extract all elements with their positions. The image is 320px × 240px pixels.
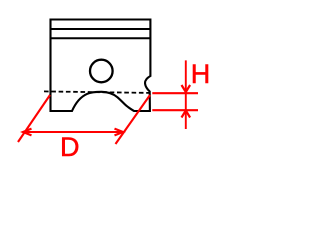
piston ring groove line 1 xyxy=(51,28,151,30)
dimension line H vertical xyxy=(185,60,187,129)
H bottom extension line xyxy=(152,109,198,111)
right oblique extension line xyxy=(116,95,151,144)
arrowhead D left xyxy=(23,129,32,136)
arrowhead D right xyxy=(115,129,124,136)
dimension line D xyxy=(23,131,123,133)
arrowhead H up xyxy=(182,111,191,118)
svg-text:H: H xyxy=(191,59,211,89)
H top extension line xyxy=(152,92,198,94)
left oblique extension line xyxy=(18,95,50,142)
svg-text:D: D xyxy=(60,132,80,162)
piston body outline xyxy=(51,20,151,112)
arrowhead H down xyxy=(182,85,191,92)
wrist pin hole xyxy=(90,60,113,83)
dashed skirt reference line xyxy=(44,91,149,93)
piston ring groove line 2 xyxy=(51,37,151,39)
